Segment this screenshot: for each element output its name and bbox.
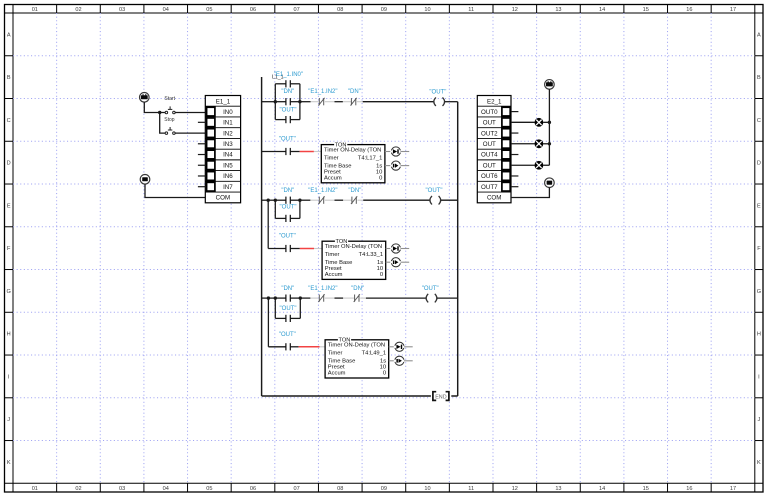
svg-text:OUT2: OUT2 [481, 130, 498, 137]
wire rung from left rail [262, 297, 276, 299]
svg-text:Accum: Accum [328, 371, 346, 377]
svg-text:IN0: IN0 [223, 109, 233, 116]
svg-text:B: B [7, 75, 11, 81]
svg-text:A: A [757, 32, 761, 38]
wire rung from left rail [262, 199, 276, 201]
svg-text:IN3: IN3 [223, 141, 233, 148]
svg-text:A: A [7, 32, 11, 38]
contact DN (NO, main) [275, 286, 300, 302]
svg-text:IN5: IN5 [223, 162, 233, 169]
timer output pin EN [385, 147, 409, 156]
coil OUT rung1 [429, 89, 446, 106]
wire 0V to E1_1 COM [145, 184, 205, 197]
svg-text:17: 17 [730, 486, 736, 492]
svg-text:Timer ON-Delay (TON: Timer ON-Delay (TON [324, 147, 381, 153]
wire rung1 from left rail to branch [262, 101, 276, 103]
svg-text:IN4: IN4 [223, 152, 233, 159]
wire IN7 stub [198, 186, 205, 188]
wire parallel branch verticals rung1 [275, 84, 300, 120]
svg-text:"DN": "DN" [281, 286, 294, 292]
svg-text:04: 04 [163, 486, 169, 492]
svg-text:"E1_1.IN2": "E1_1.IN2" [308, 89, 337, 95]
power supply +24V (left) [140, 93, 150, 103]
wire H1 to 24V bus [543, 121, 549, 123]
svg-text:13: 13 [555, 486, 561, 492]
svg-text:"E1_1.IN2": "E1_1.IN2" [308, 286, 337, 292]
node branch right [298, 199, 301, 202]
svg-text:G: G [7, 289, 11, 295]
svg-text:15: 15 [643, 7, 649, 13]
svg-text:01: 01 [32, 7, 38, 13]
wire rung elbow feed [268, 248, 286, 250]
wire coil to right rail [441, 199, 458, 201]
wire OUT4 stub [511, 154, 518, 156]
contact OUT (NO) timer rung [279, 137, 296, 156]
svg-text:"E1_1.IN0": "E1_1.IN0" [274, 72, 303, 78]
wire Stop to E1_1 IN2 [175, 132, 205, 134]
wire to timer (energized red) [290, 151, 321, 153]
node junction [267, 296, 270, 299]
wire: left power rail L1_1 [261, 77, 263, 396]
svg-text:12: 12 [512, 7, 518, 13]
wire H3 to 24V bus [543, 164, 549, 166]
node branch right [298, 100, 301, 103]
wire coil to right rail [437, 297, 458, 299]
svg-text:OUT: OUT [483, 162, 496, 169]
svg-text:F: F [757, 246, 761, 252]
wire mid segments [325, 297, 354, 299]
svg-text:"OUT": "OUT" [429, 89, 446, 95]
power supply 0V (left) [140, 175, 150, 185]
svg-text:Timer: Timer [324, 155, 339, 161]
wire after branch [300, 297, 318, 299]
wire rung1 after branch [300, 101, 318, 103]
svg-text:"OUT": "OUT" [280, 107, 297, 113]
node branch right [299, 296, 302, 299]
coil OUT [422, 286, 439, 302]
svg-text:J: J [758, 417, 761, 423]
svg-text:H: H [757, 332, 761, 338]
svg-text:04: 04 [163, 7, 169, 13]
net label L1_1 [272, 75, 284, 81]
svg-text:07: 07 [294, 7, 300, 13]
svg-text:C: C [7, 118, 11, 124]
svg-text:06: 06 [250, 486, 256, 492]
wire OUT0 stub [511, 111, 518, 113]
output module E2_1 [477, 96, 511, 203]
svg-text:Timer ON-Delay (TON: Timer ON-Delay (TON [328, 343, 385, 349]
wire OUT6 stub [511, 175, 518, 177]
svg-text:Start: Start [164, 96, 175, 102]
svg-text:02: 02 [75, 486, 81, 492]
svg-text:C: C [757, 118, 761, 124]
svg-text:16: 16 [686, 7, 692, 13]
svg-text:10: 10 [424, 7, 430, 13]
svg-text:OUT: OUT [483, 120, 496, 127]
wire IN1 stub [198, 121, 205, 123]
svg-text:11: 11 [468, 7, 474, 13]
wire rung1 mid segments [325, 101, 351, 103]
svg-text:01: 01 [32, 486, 38, 492]
wire IN5 stub [198, 164, 205, 166]
wire parallel branch verticals [275, 298, 300, 318]
svg-text:Timer ON-Delay (TON: Timer ON-Delay (TON [325, 244, 382, 250]
wire rung elbow feed [268, 346, 286, 348]
svg-text:16: 16 [686, 486, 692, 492]
timer T4:L33_1 (TON) [322, 238, 386, 279]
wire after branch [300, 199, 318, 201]
svg-text:03: 03 [119, 7, 125, 13]
END marker [431, 390, 451, 401]
svg-text:IN2: IN2 [223, 130, 233, 137]
svg-text:05: 05 [206, 486, 212, 492]
svg-text:07: 07 [294, 486, 300, 492]
contact OUT (NO, parallel branch) [275, 205, 300, 222]
svg-text:"E1_1.IN2": "E1_1.IN2" [308, 188, 337, 194]
svg-text:E: E [7, 203, 11, 209]
timer T4:L49_1 (TON) [325, 337, 389, 378]
svg-text:03: 03 [119, 486, 125, 492]
svg-text:OUT6: OUT6 [481, 173, 498, 180]
wire rung1 to coil [357, 101, 434, 103]
svg-text:Accum: Accum [324, 175, 342, 181]
pushbutton Stop (NC) [164, 117, 175, 134]
node branch left [274, 296, 277, 299]
svg-text:0: 0 [380, 272, 383, 278]
wire vertical feed rung5 to rung6 [267, 298, 269, 347]
timer output pin DN [385, 161, 409, 170]
svg-text:"DN": "DN" [348, 89, 361, 95]
svg-text:06: 06 [250, 7, 256, 13]
svg-text:"OUT": "OUT" [280, 306, 297, 312]
contact OUT (NO, parallel branch) [275, 306, 300, 322]
svg-text:Stop: Stop [164, 117, 175, 123]
indicator lamp H2 [535, 139, 544, 148]
svg-text:15: 15 [643, 486, 649, 492]
contact OUT (NO) timer rung [279, 332, 296, 351]
wire H2 to 24V bus [543, 143, 549, 145]
svg-text:"DN": "DN" [348, 188, 361, 194]
svg-text:14: 14 [599, 7, 605, 13]
svg-text:IN6: IN6 [223, 173, 233, 180]
wire parallel branch verticals [275, 200, 300, 218]
wire H2 lamp feed [511, 143, 535, 145]
svg-text:Accum: Accum [325, 272, 343, 278]
svg-text:17: 17 [730, 7, 736, 13]
svg-text:"OUT": "OUT" [279, 332, 296, 338]
contact E1_1.IN2 (NC) rung1 [308, 89, 337, 105]
node lamp H2 junction [548, 142, 551, 145]
svg-text:D: D [7, 161, 11, 167]
power supply +24V (right) [545, 80, 555, 90]
svg-text:OUT4: OUT4 [481, 152, 498, 159]
svg-text:Timer: Timer [328, 351, 343, 357]
wire rung1 coil to right rail [445, 101, 458, 103]
contact OUT (NO) timer rung [279, 234, 296, 253]
svg-text:Timer: Timer [325, 252, 340, 258]
indicator lamp H1 [535, 118, 544, 127]
svg-text:K: K [7, 460, 11, 466]
svg-text:COM: COM [487, 195, 501, 202]
contact DN (NO, main) [275, 188, 300, 204]
svg-text:E: E [757, 203, 761, 209]
svg-text:T4:L49_1: T4:L49_1 [362, 351, 387, 357]
svg-text:12: 12 [512, 486, 518, 492]
svg-text:09: 09 [381, 7, 387, 13]
node branch left [274, 100, 277, 103]
svg-text:10: 10 [424, 486, 430, 492]
wire OUT2 stub [511, 132, 518, 134]
wire mid segments [325, 199, 352, 201]
input module E1_1 [205, 96, 240, 203]
svg-text:13: 13 [555, 7, 561, 13]
pushbutton Start (NO) [164, 96, 175, 114]
contact DN (NC) [351, 286, 364, 302]
svg-text:"DN": "DN" [281, 188, 294, 194]
wire H3 lamp feed [511, 164, 535, 166]
svg-text:G: G [757, 289, 761, 295]
wire: right power rail [457, 102, 459, 396]
contact DN (NC) [348, 188, 361, 204]
coil OUT [426, 188, 443, 204]
svg-text:08: 08 [337, 7, 343, 13]
timer output pin DN [386, 258, 410, 267]
svg-text:J: J [7, 417, 10, 423]
svg-text:"DN": "DN" [281, 89, 294, 95]
svg-text:"OUT": "OUT" [426, 188, 443, 194]
svg-text:E2_1: E2_1 [487, 98, 502, 105]
svg-text:IN7: IN7 [223, 184, 233, 191]
wire IN6 stub [198, 175, 205, 177]
svg-text:"OUT": "OUT" [280, 205, 297, 211]
contact OUT (NO, bottom branch rung1) [275, 107, 300, 123]
svg-text:B: B [757, 75, 761, 81]
svg-text:T4:L17_1: T4:L17_1 [358, 155, 383, 161]
svg-text:OUT7: OUT7 [481, 184, 498, 191]
svg-text:H: H [7, 332, 11, 338]
svg-text:END: END [435, 394, 446, 400]
timer output pin EN [389, 342, 413, 351]
wire OUT7 stub [511, 186, 518, 188]
svg-text:02: 02 [75, 7, 81, 13]
wire to timer (energized red) [290, 346, 325, 348]
svg-text:14: 14 [599, 486, 605, 492]
wire 24V to Start branch [144, 102, 165, 112]
svg-text:11: 11 [468, 486, 474, 492]
wire H1 lamp feed [511, 121, 535, 123]
contact E1_1.IN2 (NC) [308, 188, 337, 204]
svg-text:"OUT": "OUT" [422, 286, 439, 292]
svg-text:05: 05 [206, 7, 212, 13]
node: junction Start/Stop branch [158, 111, 161, 114]
wire to coil [358, 199, 430, 201]
timer output pin DN [389, 356, 413, 365]
contact DN (NC) rung1 [348, 89, 361, 105]
wire 0V to E2_1 COM [511, 188, 549, 198]
svg-text:08: 08 [337, 486, 343, 492]
svg-text:IN1: IN1 [223, 120, 233, 127]
svg-text:"OUT": "OUT" [279, 234, 296, 240]
svg-text:D: D [757, 161, 761, 167]
svg-text:COM: COM [216, 195, 230, 202]
wire: bottom rail [262, 395, 458, 397]
svg-text:F: F [7, 246, 11, 252]
wire to timer (energized red) [290, 248, 322, 250]
wire IN4 stub [198, 154, 205, 156]
timer T4:L17_1 (TON) [321, 142, 385, 183]
timer output pin EN [386, 244, 410, 253]
svg-text:T4:L33_1: T4:L33_1 [359, 252, 384, 258]
svg-text:"DN": "DN" [351, 286, 364, 292]
svg-text:OUT0: OUT0 [481, 109, 498, 116]
svg-text:"OUT": "OUT" [279, 137, 296, 143]
contact E1_1.IN2 (NC) [308, 286, 337, 302]
node branch left [274, 199, 277, 202]
wire rung from left rail [262, 151, 286, 153]
wire Start to E1_1 IN0 [175, 112, 205, 114]
wire branch down to Stop [160, 113, 166, 134]
svg-text:OUT: OUT [483, 141, 496, 148]
wire to coil [360, 297, 426, 299]
power supply 0V (right) [545, 178, 555, 188]
svg-text:E1_1: E1_1 [216, 98, 231, 105]
svg-text:K: K [757, 460, 761, 466]
node junction [267, 199, 270, 202]
indicator lamp H3 [535, 161, 544, 170]
wire vertical feed rung3 to rung4 [267, 200, 269, 248]
svg-text:0: 0 [383, 371, 386, 377]
wire 24V bus (right) [548, 89, 550, 165]
wire IN3 stub [198, 143, 205, 145]
contact DN (NO, rung1 main) [275, 89, 300, 105]
contact E1_1.IN0 (NO, top branch) [274, 72, 303, 88]
svg-text:09: 09 [381, 486, 387, 492]
svg-text:0: 0 [379, 175, 382, 181]
node lamp H1 junction [548, 121, 551, 124]
